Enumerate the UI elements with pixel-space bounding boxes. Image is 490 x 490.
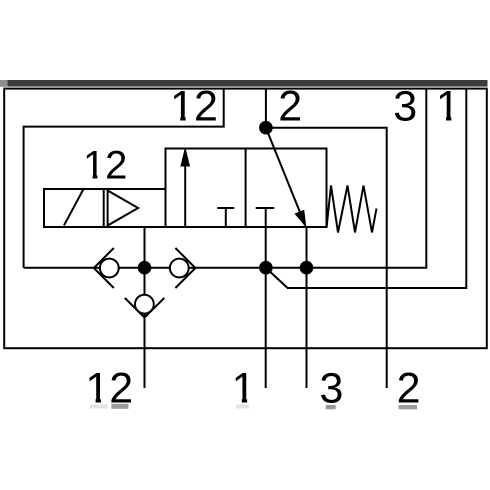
- svg-text:12: 12: [170, 82, 218, 130]
- svg-text:1: 1: [436, 82, 460, 130]
- svg-text:3: 3: [393, 82, 417, 130]
- svg-text:2: 2: [278, 82, 302, 130]
- svg-text:12: 12: [83, 143, 128, 187]
